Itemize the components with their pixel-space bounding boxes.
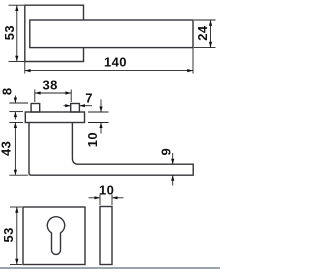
svg-text:24: 24 [195, 25, 210, 41]
svg-text:53: 53 [2, 25, 17, 40]
svg-text:10: 10 [99, 182, 114, 197]
svg-text:9: 9 [159, 148, 174, 155]
svg-text:38: 38 [43, 78, 58, 93]
svg-text:7: 7 [85, 90, 92, 105]
svg-text:43: 43 [0, 141, 14, 156]
svg-text:53: 53 [1, 227, 16, 242]
svg-text:8: 8 [0, 88, 15, 95]
svg-text:10: 10 [85, 132, 100, 147]
svg-text:140: 140 [104, 54, 127, 69]
